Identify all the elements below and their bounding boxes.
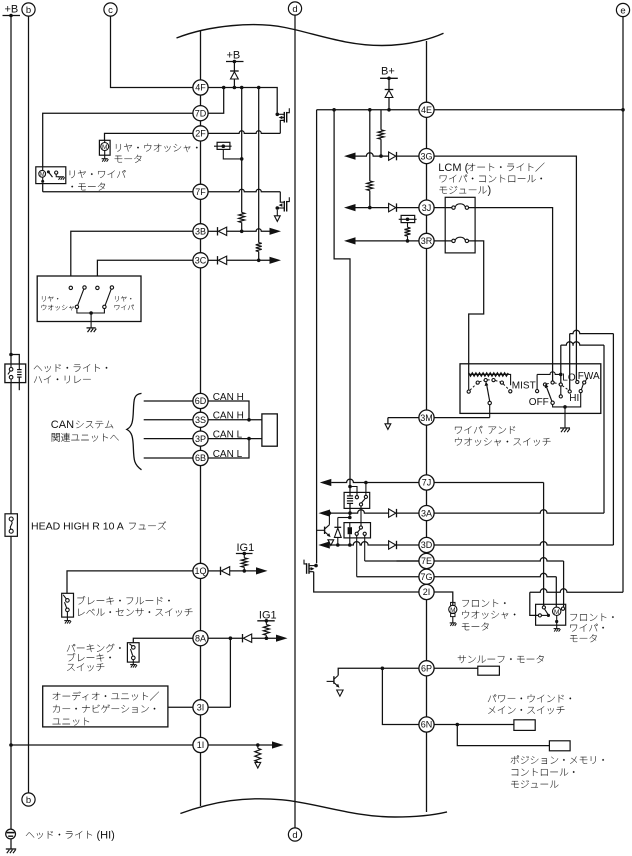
- output arrow (1I): [255, 762, 261, 768]
- svg-text:6D: 6D: [195, 396, 207, 406]
- wire RY1 contact out: [360, 506, 362, 527]
- dashed selector arc (mode): [547, 383, 569, 390]
- wire from e down right side: [622, 17, 624, 593]
- arrow (8A output): [276, 635, 288, 642]
- wire 3M left: [388, 417, 419, 419]
- label brake fluid line1: [77, 596, 169, 605]
- headlight (HI) lamp symbol: [6, 829, 16, 839]
- svg-text:LCM (: LCM (: [438, 162, 468, 174]
- connector 6P: [419, 661, 434, 676]
- svg-text:d: d: [292, 4, 297, 15]
- label headlight HI: [26, 831, 92, 839]
- connector 2F: [193, 126, 208, 141]
- washer interval resistor strip: [469, 373, 509, 376]
- wire 4E line right to e: [434, 109, 623, 111]
- resistor R2: [256, 243, 262, 252]
- brake fluid switch contacts: [63, 595, 66, 599]
- wire 7F line left: [43, 191, 193, 193]
- wire 3B line right: [227, 229, 272, 232]
- transistor Q1 (output driver, 4F/2F): [276, 113, 280, 117]
- connector d (bottom): [288, 828, 301, 841]
- arrow (7J): [320, 479, 332, 486]
- wire 2I left: [314, 572, 419, 592]
- resistor R1: [239, 213, 245, 223]
- label parking brake line3: [67, 663, 104, 671]
- connector b (bottom): [22, 793, 35, 806]
- audio / navigation unit box: [43, 686, 168, 727]
- diode D7 (3G): [389, 152, 396, 160]
- connector c (top): [104, 3, 117, 16]
- wire 8A left to parking brake switch: [133, 638, 193, 643]
- arrow (3D): [318, 541, 330, 548]
- svg-text:d: d: [292, 830, 297, 841]
- front wiper motor box: [536, 604, 566, 625]
- wire connector b vertical: [28, 16, 30, 793]
- dashed selector arc (washer): [470, 380, 509, 390]
- svg-text:): ): [488, 185, 492, 197]
- svg-text:b: b: [26, 5, 31, 16]
- resistor R5 (1I): [257, 745, 259, 748]
- switch arm (rear wiper): [105, 289, 111, 305]
- label power window line2: [488, 706, 564, 714]
- connector 3M: [419, 410, 434, 425]
- wire from c to 4F: [111, 16, 193, 87]
- wire 3B lead: [208, 230, 217, 232]
- wire 6P right to sunroof motor: [434, 667, 478, 669]
- svg-text:HEAD HIGH R 10 A: HEAD HIGH R 10 A: [31, 521, 124, 533]
- diode D1 (+B feed): [233, 62, 235, 72]
- diode D2 (3B): [217, 227, 219, 235]
- wire cD to c8: [560, 386, 562, 395]
- resistor R3 (IG1 pull): [243, 554, 245, 558]
- wire 3R to contact: [434, 240, 452, 242]
- wire 4F to 7D elbow: [208, 88, 224, 114]
- resistor R4 (IG1 pull): [265, 621, 267, 625]
- headlight high relay box: [5, 364, 26, 383]
- label LCM line3: [440, 186, 487, 194]
- wire 4F internal bus: [208, 88, 277, 113]
- transistor Q2 (output driver, 7F): [280, 192, 284, 202]
- wire: [241, 223, 243, 232]
- arrow (1Q output): [256, 567, 268, 574]
- label rear wiper motor line1: [70, 170, 126, 178]
- wire 1Q lead: [208, 570, 220, 572]
- svg-text:M: M: [102, 144, 107, 151]
- svg-text:c: c: [108, 5, 113, 16]
- diode D11 (3D): [389, 541, 396, 549]
- wire washer arm to 3M line: [489, 405, 491, 418]
- ground (rear washer motor): [104, 155, 106, 158]
- wire 7F line right: [208, 189, 280, 192]
- torn-edge wavy line (top): [177, 25, 444, 46]
- connector 6N: [419, 717, 434, 732]
- sensor element (3R): [401, 215, 415, 222]
- label rear washer motor line2: [115, 155, 142, 163]
- relay contact: [10, 364, 12, 367]
- wire 6P left: [338, 668, 419, 675]
- svg-text:+B: +B: [5, 4, 19, 16]
- fuse HEAD HIGH R 10A: [5, 514, 17, 537]
- svg-text:3D: 3D: [421, 540, 433, 550]
- diode D6 (B+): [388, 78, 390, 89]
- wire 7D left to rear wiper motor: [43, 113, 193, 167]
- position memory module connector: [549, 741, 570, 751]
- arrow (3A): [319, 510, 331, 517]
- connector 6B: [193, 450, 208, 465]
- wire 1Q left to brake fluid switch: [67, 571, 193, 593]
- diode D9 (3A): [389, 509, 396, 517]
- wire switch common to ground: [553, 393, 581, 407]
- wire CAN 3P left stub: [144, 438, 193, 440]
- label position memory line3: [511, 780, 558, 788]
- wire 3B line left: [71, 231, 193, 286]
- wire +B vertical feed (left): [10, 16, 12, 355]
- svg-text:1Q: 1Q: [194, 566, 206, 576]
- wire RY2 to 7G: [356, 535, 358, 576]
- wire d bus vertical: [294, 15, 296, 828]
- FWA contact tail: [585, 378, 588, 381]
- ground (brake fluid switch): [66, 617, 68, 620]
- wire 4E line left: [317, 109, 419, 111]
- svg-text:3R: 3R: [421, 236, 433, 246]
- connector e (top): [616, 3, 629, 16]
- wire RY2 to 7E: [364, 535, 366, 561]
- wire 1I line: [11, 744, 193, 746]
- connector 1I: [193, 737, 208, 752]
- diode D5 (8A): [242, 634, 244, 642]
- label audio unit line3: [53, 718, 90, 726]
- wire 3A line: [330, 510, 389, 513]
- resistor R7 (3R): [405, 227, 411, 236]
- label headlight relay line1: [34, 364, 108, 372]
- arrow (3J): [344, 204, 356, 211]
- wire 6N to position memory module: [457, 725, 549, 746]
- label headlight relay line2: [34, 376, 91, 384]
- arrow (3C output): [270, 257, 282, 264]
- svg-text:6P: 6P: [421, 664, 432, 674]
- wire: [397, 510, 605, 513]
- relay RY2 box: [344, 523, 371, 538]
- wire washer strip left leg: [468, 375, 470, 390]
- diode D3 (3C): [217, 256, 219, 264]
- label parking brake line2: [68, 653, 111, 662]
- wire 3C line right: [227, 259, 272, 261]
- svg-text:8A: 8A: [195, 633, 206, 643]
- junction +B to relay coil: [9, 353, 13, 357]
- connector 4F: [193, 80, 208, 95]
- svg-text:3I: 3I: [197, 703, 205, 713]
- wire 1Q right: [230, 570, 256, 572]
- label audio unit line2: [53, 705, 155, 713]
- svg-text:7F: 7F: [195, 187, 206, 197]
- arrow (3R): [344, 237, 356, 244]
- wire: [397, 155, 419, 157]
- connector 3S: [193, 412, 208, 427]
- wire: [252, 637, 276, 639]
- wire 3J to contact: [434, 207, 452, 209]
- wire 7J line: [331, 479, 543, 482]
- transistor Q5 (washer driver): [314, 564, 318, 568]
- contact (3R): [452, 239, 455, 242]
- brace (CAN bundle): [127, 393, 142, 469]
- connector 7D: [193, 106, 208, 121]
- wire RY1 contact feed: [350, 487, 357, 496]
- svg-text:2I: 2I: [423, 587, 431, 597]
- washer position contacts: [476, 381, 479, 384]
- wire switch common to ground: [77, 309, 105, 313]
- connector 3D: [419, 537, 434, 552]
- transistor Q3 (LCM driver): [317, 529, 325, 531]
- output arrow (Q3): [328, 540, 334, 546]
- power window main switch connector: [514, 720, 535, 731]
- wire audio box to 3I: [168, 706, 193, 708]
- svg-text:4F: 4F: [195, 83, 206, 93]
- svg-text:3M: 3M: [420, 413, 433, 423]
- mode switch arm (OFF): [546, 386, 552, 401]
- connector 3J: [419, 200, 434, 215]
- front wiper motor M: [553, 607, 561, 615]
- CAN termination connector: [262, 414, 277, 446]
- wire 7G to front wiper motor: [555, 577, 557, 607]
- svg-text:CAN: CAN: [51, 419, 74, 431]
- svg-text:IG1: IG1: [259, 609, 277, 621]
- wire right module bus (vertical): [426, 41, 428, 812]
- svg-text:3A: 3A: [421, 508, 432, 518]
- wire 7G line: [357, 573, 557, 576]
- wire 6B to CAN L join: [208, 439, 249, 458]
- connector 3I: [193, 700, 208, 715]
- connector 7J: [419, 475, 434, 490]
- wire 6P-6N link: [382, 668, 419, 724]
- label (switch) rear wiper: [115, 296, 131, 302]
- front wiper motor contacts: [542, 606, 545, 609]
- LCM internal contact box: [445, 197, 475, 253]
- wire 3M right (under switch box): [434, 417, 490, 419]
- output arrow (Q4): [337, 690, 343, 696]
- wire: [560, 345, 562, 383]
- wire 7E line: [365, 558, 564, 561]
- wire CAN 6B left stub: [144, 457, 193, 459]
- wire HI-feed cross link: [537, 372, 561, 375]
- transistor Q4 (sunroof): [334, 675, 338, 679]
- connector 2I: [419, 584, 434, 599]
- svg-text:3C: 3C: [195, 256, 207, 266]
- wire internal vertical B (4F to 3C): [258, 88, 260, 243]
- wire 6N right: [434, 724, 514, 726]
- svg-text:1I: 1I: [197, 740, 205, 750]
- connector b (top): [22, 3, 35, 16]
- connector 3B: [193, 224, 208, 239]
- arm FWA to HI contact: [581, 384, 583, 390]
- rear wiper-washer switch box: [37, 276, 141, 322]
- relay coil: [18, 364, 20, 369]
- wire RY1 coil continues: [349, 492, 351, 496]
- wire CAN 3S left stub: [144, 419, 193, 421]
- wire vertical w/ resistor to 3J: [369, 110, 371, 181]
- svg-text:3G: 3G: [420, 151, 432, 161]
- junctions on 4E line: [332, 108, 336, 112]
- wire 7E to front wiper motor: [563, 561, 565, 607]
- wire 6D to CAN H join: [208, 401, 249, 420]
- wire 3C lead: [208, 259, 217, 261]
- wire 2I right to washer motor: [434, 592, 453, 605]
- wire 3J line: [352, 207, 389, 209]
- contact (3J): [452, 206, 455, 209]
- arrow (1I output): [272, 741, 284, 748]
- label audio unit line1: [53, 692, 159, 701]
- wire 3R line: [352, 240, 419, 242]
- svg-text:LO: LO: [562, 372, 576, 383]
- svg-text:+B: +B: [227, 50, 241, 62]
- diode D8 (3J): [389, 203, 396, 211]
- svg-text:7G: 7G: [420, 572, 432, 582]
- svg-text:3J: 3J: [422, 203, 432, 213]
- svg-text:7D: 7D: [195, 108, 207, 118]
- connector 3P: [193, 431, 208, 446]
- sunroof motor connector: [478, 666, 500, 675]
- diode D10 (flyback): [349, 513, 351, 517]
- svg-text:6B: 6B: [195, 453, 206, 463]
- connector 8A: [193, 631, 208, 646]
- junction dots on 4F bus: [222, 86, 226, 90]
- label wiper and washer switch line1: [455, 426, 515, 434]
- junction (3B/internal): [240, 230, 244, 234]
- switch arm (rear washer): [78, 289, 84, 305]
- connector 3A: [419, 505, 434, 520]
- svg-text:OFF: OFF: [529, 397, 549, 408]
- relay RY1 coil: [348, 485, 352, 489]
- svg-text:3B: 3B: [195, 227, 206, 237]
- wire 3R contact down to switch: [469, 241, 484, 375]
- ground (front wiper motor): [556, 625, 558, 628]
- ground (headlight HI): [6, 848, 16, 850]
- label (switch) rear washer: [42, 296, 58, 302]
- parking brake contacts: [130, 644, 133, 646]
- svg-text:3S: 3S: [195, 415, 206, 425]
- wiper and washer switch box: [460, 364, 601, 414]
- rear wiper motor box: [36, 167, 66, 184]
- label front washer line2: [462, 611, 515, 620]
- label front wiper line2: [570, 624, 604, 632]
- wire 3G down to switch: [434, 156, 576, 380]
- wire 3C line left: [97, 260, 192, 286]
- label front washer line1: [462, 599, 505, 607]
- diode D4 (1Q): [220, 567, 222, 575]
- ground (front washer motor): [450, 622, 456, 624]
- wire 8A to 3I vertical: [229, 638, 231, 707]
- arrow (3B output): [270, 228, 282, 235]
- wire e-line to front wiper motor: [530, 589, 623, 592]
- wire internal vertical A (4F to 3B): [241, 88, 243, 213]
- label front wiper line3: [570, 634, 597, 642]
- front washer motor M: [451, 602, 455, 606]
- wire: [569, 334, 571, 390]
- parking brake switch box: [127, 643, 139, 662]
- brake fluid level sensor switch box: [62, 593, 74, 617]
- ground (rear switch): [87, 327, 96, 329]
- RY2 contact: [359, 526, 362, 529]
- switch contacts (rear): [69, 286, 72, 289]
- ground (wiper switch): [560, 427, 570, 429]
- ground (parking brake switch): [132, 662, 134, 664]
- connector 4E: [419, 102, 434, 117]
- label sunroof motor: [458, 655, 544, 663]
- wire 2F left to rear washer motor: [105, 133, 193, 140]
- wire 3I right up to 8A: [208, 706, 230, 708]
- junction (3C/internal): [257, 259, 261, 263]
- wire 3S to CAN connector: [208, 419, 262, 421]
- svg-text:4E: 4E: [421, 105, 432, 115]
- connector 1Q: [193, 563, 208, 578]
- wire HI feed (3A route): [561, 342, 604, 345]
- connector 3C: [193, 253, 208, 268]
- connector 7G: [419, 569, 434, 584]
- sensor element (2F branch): [217, 142, 230, 149]
- wire 3G line: [352, 153, 389, 156]
- svg-text:7J: 7J: [422, 478, 432, 488]
- arrow (3G, to rear window defogger): [344, 153, 356, 160]
- wire LO feed (3D route): [570, 330, 614, 333]
- RY1 contact: [365, 483, 367, 496]
- connector 6D: [193, 393, 208, 408]
- wire: [258, 252, 260, 261]
- relay RY2 coil: [349, 523, 351, 528]
- connector 3R: [419, 233, 434, 248]
- wire 7J to front wiper motor (low): [543, 483, 545, 606]
- torn-edge wavy line (bottom): [180, 799, 447, 817]
- svg-text:b: b: [26, 795, 31, 806]
- label rear wiper motor line2: [71, 183, 105, 191]
- connector 3G: [419, 149, 434, 164]
- svg-text:M: M: [554, 609, 559, 616]
- label position memory line1: [511, 755, 604, 764]
- svg-text:(HI): (HI): [97, 829, 115, 841]
- resistor R6 (4E to 3G): [380, 110, 382, 130]
- svg-text:FWA: FWA: [578, 371, 600, 382]
- connector 7E: [419, 553, 434, 568]
- label brake fluid line2: [78, 608, 192, 616]
- wire 3D line: [330, 542, 389, 545]
- output arrow (7F driver): [274, 216, 280, 222]
- wire left module bus (vertical): [200, 30, 202, 806]
- svg-text:e: e: [620, 5, 625, 16]
- rear wiper park switch: [47, 170, 50, 173]
- rear washer motor box: [99, 140, 110, 155]
- wire 3J contact to wiper switch (MIST): [469, 208, 553, 381]
- svg-text:7E: 7E: [421, 556, 432, 566]
- motor M (rear wiper): [42, 167, 44, 171]
- wire CAN 6D left stub: [144, 400, 193, 402]
- output arrow (3M): [385, 424, 391, 430]
- wire 3P to CAN connector: [208, 438, 262, 440]
- wire 8A right: [208, 637, 242, 639]
- relay RY1 box: [344, 492, 370, 508]
- label position memory line2: [512, 768, 575, 776]
- label power window line1: [488, 694, 571, 702]
- label CAN system line2: [52, 433, 119, 442]
- label front wiper line1: [570, 613, 613, 621]
- motor M (rear washer): [104, 140, 106, 142]
- wire LCM left rail (to Q3 base / Q5 gate): [316, 110, 318, 563]
- connector 7F: [193, 184, 208, 199]
- wire 2F line: [208, 131, 280, 134]
- svg-text:3P: 3P: [195, 434, 206, 444]
- label rear washer motor line1: [116, 144, 198, 153]
- wire rear wiper motor to 7F line: [42, 184, 44, 192]
- svg-text:2F: 2F: [195, 129, 206, 139]
- wire: [397, 207, 419, 209]
- washer wiper arm: [487, 384, 490, 401]
